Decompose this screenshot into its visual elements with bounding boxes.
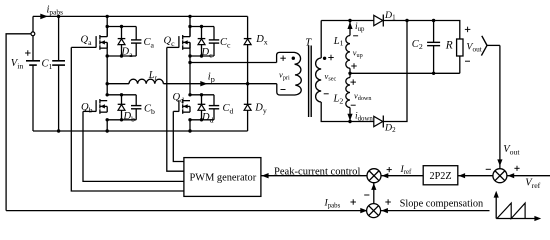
capacitor C1 bbox=[58, 16, 60, 60]
block 2P2Z bbox=[423, 166, 458, 185]
capacitor Cd bbox=[213, 95, 215, 106]
wire left leg drain Qa bbox=[106, 16, 108, 36]
summer voltage loop bbox=[493, 169, 507, 183]
arrow Vref into summer bbox=[508, 173, 515, 178]
current arrow i_pabs bbox=[40, 14, 48, 20]
svg-text:R: R bbox=[445, 40, 453, 52]
diode Da bbox=[121, 27, 123, 39]
junction C1 top bbox=[57, 15, 60, 18]
junction Qb snubber top-leg bbox=[106, 93, 109, 96]
summer slope compensation bbox=[367, 204, 381, 218]
wire Lr to primary bottom bbox=[163, 83, 276, 85]
wire Vref bbox=[507, 175, 550, 177]
label + primary bbox=[280, 57, 286, 59]
wire left midpoint to Lr bbox=[107, 83, 129, 85]
arrow into 2P2Z bbox=[459, 173, 466, 178]
sawtooth waveform bbox=[497, 203, 525, 218]
wire Iref to summer bbox=[381, 175, 423, 177]
transistor Qa bbox=[95, 36, 97, 48]
winding secondary vsec bbox=[320, 21, 322, 59]
wire L2 to bottom bbox=[349, 108, 351, 122]
probe Vout sense bbox=[481, 36, 487, 56]
wire Qd source to rail bbox=[189, 120, 191, 131]
svg-text:PWM generator: PWM generator bbox=[190, 172, 257, 183]
label + slope comp input bbox=[385, 201, 391, 203]
label - vdown bbox=[351, 104, 356, 106]
wire top rail down to Dx bbox=[247, 16, 249, 38]
junction Db bottom bbox=[120, 118, 123, 121]
transistor Qd bbox=[178, 100, 180, 112]
current arrow ip bbox=[200, 81, 207, 86]
junction clamp node A bbox=[246, 82, 249, 85]
label - slope input bbox=[364, 194, 369, 196]
junction D2 return at top bbox=[405, 19, 408, 22]
capacitor C2 bbox=[433, 21, 435, 43]
wire right midpoint to primary top bbox=[190, 62, 277, 64]
wire voltage summer to 2P2Z bbox=[458, 175, 493, 177]
junction Qb source-snubber bbox=[106, 118, 109, 121]
junction Qd snubber top-leg bbox=[188, 93, 191, 96]
junction Da bottom bbox=[120, 54, 123, 57]
junction Dd top bbox=[200, 93, 203, 96]
junction Db top bbox=[120, 93, 123, 96]
arrow Iref into summer bbox=[382, 173, 389, 178]
diode Dy bbox=[244, 103, 252, 105]
wire Qa snubber top bbox=[107, 26, 136, 28]
sawtooth axis vertical bbox=[495, 196, 497, 219]
diode Dx bbox=[244, 38, 252, 40]
summer current loop bbox=[367, 169, 381, 183]
label - vup bbox=[353, 35, 358, 37]
label - Vout input bbox=[486, 168, 491, 170]
resistor R bbox=[457, 39, 463, 56]
wire secondary top bbox=[321, 20, 374, 22]
diode Db bbox=[121, 95, 123, 105]
label + vdown bbox=[350, 81, 356, 83]
source Vin battery bbox=[26, 60, 40, 62]
label + vsec bbox=[328, 57, 334, 59]
wire Vin negative lead bbox=[32, 65, 34, 131]
wire slope compensation bbox=[381, 210, 490, 212]
wire D1 to output plus bbox=[383, 21, 460, 40]
junction C2 bottom bbox=[432, 72, 435, 75]
arrow slope comp into summer bbox=[381, 208, 388, 213]
svg-text:Peak-current control: Peak-current control bbox=[274, 166, 360, 177]
junction Qa snubber top-leg bbox=[106, 25, 109, 28]
junction Qc source-snubber bbox=[188, 54, 191, 57]
capacitor Cb bbox=[135, 95, 137, 106]
wire gate drive Qc bbox=[167, 47, 184, 171]
capacitor Ca bbox=[135, 27, 137, 40]
label + Vin bbox=[25, 52, 31, 54]
block PWM generator bbox=[184, 158, 261, 197]
label - vsec bbox=[324, 93, 329, 95]
label - Vout bbox=[465, 60, 470, 62]
current arrow iup bbox=[347, 22, 352, 29]
wire Dy to bottom rail bbox=[247, 110, 249, 131]
junction C1 bottom bbox=[57, 129, 60, 132]
transistor Qc bbox=[178, 36, 180, 48]
wire right leg middle bbox=[189, 42, 191, 94]
arrow Ipabs into summer bbox=[360, 208, 367, 213]
wire Qb snubber top bbox=[107, 94, 136, 96]
diode D1 bbox=[374, 15, 383, 25]
sawtooth axis horizontal bbox=[496, 218, 535, 220]
junction Da top bbox=[120, 25, 123, 28]
label + Ipabs input bbox=[350, 201, 356, 203]
wire Qc snubber bottom bbox=[190, 55, 214, 57]
label + Vout bbox=[465, 28, 471, 30]
diode D2 bbox=[374, 116, 383, 126]
wire Qb snubber bottom bbox=[107, 119, 136, 121]
label + vup bbox=[351, 65, 357, 67]
wire Qc snubber top bbox=[190, 26, 214, 28]
wire Ipabs feedback bbox=[6, 210, 367, 212]
arrow into PWM bbox=[262, 173, 269, 178]
label + Iref input bbox=[387, 169, 392, 171]
polarity dot primary bbox=[292, 57, 295, 60]
inductor L1 bbox=[346, 36, 350, 69]
polarity dot secondary bbox=[323, 57, 326, 60]
wire secondary bottom to D2 bbox=[350, 121, 374, 123]
arrow Vout into summer bbox=[497, 159, 502, 166]
diode Dc bbox=[201, 27, 203, 39]
wire slope summer to current summer bbox=[373, 183, 375, 204]
junction C2 top bbox=[432, 19, 435, 22]
wire Vin positive lead bbox=[32, 16, 34, 60]
wire peak-current control bbox=[261, 175, 367, 177]
junction Dc bottom bbox=[200, 54, 203, 57]
wire Qd snubber top bbox=[190, 94, 214, 96]
wire right leg drain Qc bbox=[189, 16, 191, 36]
wire top rail bbox=[33, 15, 248, 17]
winding primary bubble bbox=[277, 52, 302, 95]
label + Vref input bbox=[514, 167, 519, 169]
junction Qc snubber top-leg bbox=[188, 25, 191, 28]
wire Qb source to rail bbox=[106, 120, 108, 131]
junction center tap bbox=[348, 72, 351, 75]
capacitor Cc bbox=[213, 27, 215, 40]
core transformer T bbox=[308, 46, 310, 118]
junction Dc top bbox=[200, 25, 203, 28]
wire left leg middle bbox=[106, 42, 108, 94]
wire gate drive Qa bbox=[71, 47, 184, 191]
node input sense tap bbox=[31, 32, 35, 36]
wire gate drive Qb bbox=[83, 111, 184, 181]
junction right leg top bbox=[188, 15, 191, 18]
svg-text:Slope compensation: Slope compensation bbox=[400, 199, 484, 210]
junction left midpoint node bbox=[106, 82, 109, 85]
wire Qa snubber bottom bbox=[107, 55, 136, 57]
arrow into current summer bbox=[371, 183, 376, 190]
junction L2 bottom bbox=[348, 120, 351, 123]
wire center tap to load bbox=[350, 72, 460, 74]
junction Dd bottom bbox=[200, 118, 203, 121]
inductor Lr bbox=[129, 79, 163, 84]
junction L1 top bbox=[348, 19, 351, 22]
wire L1 to center tap bbox=[349, 68, 351, 73]
wire sense branch to left rail bbox=[6, 34, 31, 211]
inductor L2 bbox=[346, 78, 350, 108]
junction right midpoint node bbox=[188, 61, 191, 64]
wire Qd snubber bottom bbox=[190, 119, 214, 121]
wire Vout sense down bbox=[499, 45, 501, 168]
junction Qd source-snubber bbox=[188, 118, 191, 121]
wire L2 upper lead bbox=[349, 73, 351, 77]
svg-text:2P2Z: 2P2Z bbox=[430, 171, 452, 182]
wire clamp node bbox=[247, 45, 249, 105]
wire gate drive Qd bbox=[173, 111, 184, 161]
current arrow idown bbox=[347, 114, 352, 121]
transistor Qb bbox=[95, 100, 97, 112]
junction left leg top bbox=[106, 15, 109, 18]
junction Qa source-snubber bbox=[106, 54, 109, 57]
label - primary bbox=[281, 89, 286, 91]
junction right leg bottom rail bbox=[188, 129, 191, 132]
wire bottom rail bbox=[33, 130, 248, 132]
diode Dd bbox=[201, 95, 203, 105]
wire D2 return to output plus bbox=[383, 21, 407, 122]
junction left leg bottom rail bbox=[106, 129, 109, 132]
